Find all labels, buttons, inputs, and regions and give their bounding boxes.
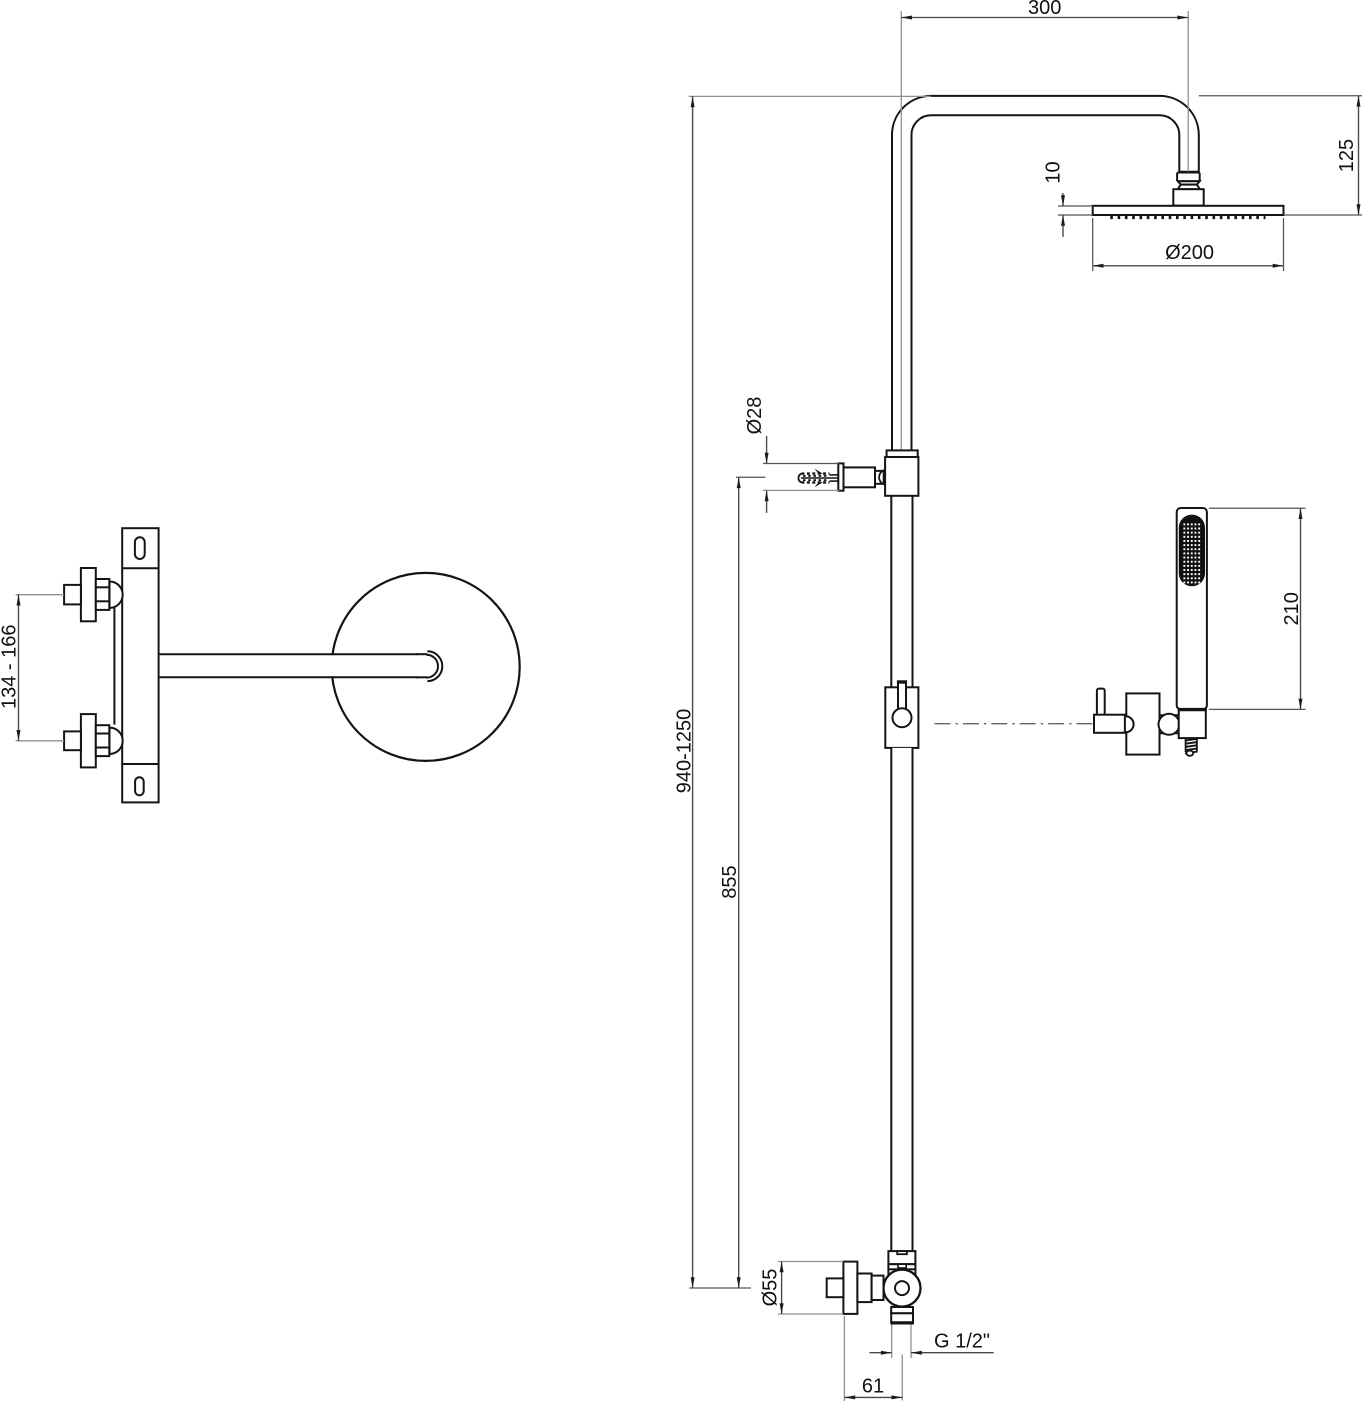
dimension Ø200 extension lines: [1093, 218, 1284, 271]
holder lever: [1097, 689, 1105, 716]
bracket neck: [875, 471, 884, 484]
shower rail tube seen from above: [140, 654, 428, 677]
svg-text:Ø200: Ø200: [1165, 242, 1214, 264]
dimension 855: [719, 477, 741, 1288]
bottom fitting hex nut: [96, 725, 110, 756]
dimension 125: [1336, 96, 1361, 215]
dimension 855 extension line: [736, 476, 765, 478]
extension line from 300 dim through riser: [900, 11, 902, 450]
hand shower hose connector: [1185, 738, 1198, 756]
mixer valve inner circle: [895, 1281, 909, 1295]
wall mounting plate (side view): [122, 528, 158, 802]
dimension 134-166: [0, 595, 21, 741]
dimension Ø28: [744, 397, 769, 513]
bracket neck-block joint arc: [879, 470, 885, 485]
top supply fitting dome union: [110, 582, 123, 608]
dimension Ø200: [1093, 242, 1284, 268]
holder joint lines: [1160, 715, 1179, 733]
bottom supply fitting dome union: [110, 728, 123, 754]
wall anchor plug: [798, 469, 838, 488]
svg-text:210: 210: [1281, 592, 1303, 625]
dimension 10 extension lines: [1058, 206, 1093, 215]
holder wall ball: [1118, 716, 1134, 732]
slider clamp tab: [897, 682, 907, 709]
dimension 61: [844, 1376, 902, 1400]
bottom fitting escutcheon: [81, 714, 96, 767]
rail holder block: [885, 457, 918, 496]
shower head disc Ø200: [1093, 206, 1284, 215]
dimension 940-1250 extension lines: [689, 96, 931, 1288]
svg-text:855: 855: [719, 865, 741, 898]
top fitting escutcheon: [81, 568, 96, 621]
holder wall plate: [1094, 715, 1125, 733]
dimension 61 extension lines: [844, 1316, 902, 1401]
slider knob: [893, 708, 912, 727]
dimension 125 extension lines: [1199, 96, 1362, 215]
dimension Ø28 extension lines: [763, 464, 839, 491]
dimension Ø55 extension lines: [778, 1262, 843, 1315]
plate slot bottom: [135, 777, 144, 795]
holder block: [1126, 693, 1159, 754]
mixer body edge lines behind plate: [114, 568, 158, 764]
mixer handle knob: [827, 1278, 844, 1297]
mixer escutcheon Ø55: [843, 1262, 857, 1314]
centerline slider to hand shower: [935, 723, 1095, 725]
svg-text:61: 61: [862, 1376, 884, 1398]
dimension 300: [901, 0, 1188, 20]
hand shower spray face: [1179, 515, 1205, 587]
shower rail lower section: [891, 748, 912, 1251]
mixer hose nut: [891, 1313, 914, 1323]
svg-text:Ø55: Ø55: [759, 1269, 781, 1307]
dimension G 1/2: [870, 1331, 994, 1355]
shower rail upper section: [891, 496, 912, 688]
dimension Ø55: [759, 1262, 783, 1315]
svg-text:134 - 166: 134 - 166: [0, 625, 20, 710]
mixer connector piece 1: [857, 1274, 871, 1303]
dimension 940-1250: [673, 96, 695, 1288]
svg-text:10: 10: [1042, 161, 1064, 183]
rail holder collar: [887, 450, 918, 457]
top fitting bolt head: [64, 585, 81, 605]
svg-text:940-1250: 940-1250: [673, 709, 695, 794]
bracket cylinder Ø28: [844, 467, 876, 487]
overhead shower head seen from above (circle Ø200): [332, 573, 520, 761]
mixer inlet side lines: [888, 1269, 915, 1275]
rail bottom lock nut: [888, 1251, 915, 1269]
svg-text:125: 125: [1336, 139, 1358, 172]
tube right end elbow ring inside circle: [413, 651, 443, 681]
mixer connector piece 2: [872, 1276, 884, 1300]
top fitting hex nut: [96, 579, 110, 610]
dimension 10: [1042, 161, 1065, 237]
shower column top arm pipe: [892, 96, 1199, 452]
hand shower slider body: [885, 687, 918, 748]
extension line from 300 dim through down tube: [1187, 11, 1189, 172]
svg-text:Ø28: Ø28: [744, 397, 766, 435]
dimension G 1/2 extension lines: [892, 1325, 911, 1359]
hand shower holder cup: [1178, 709, 1207, 738]
dimension 134-166 extension lines: [16, 595, 65, 741]
dimension 210: [1281, 508, 1303, 709]
head arm collar nut: [1177, 173, 1200, 182]
svg-text:300: 300: [1028, 0, 1061, 19]
bracket wall flange: [838, 463, 843, 490]
holder swivel ball: [1159, 714, 1180, 735]
tube left end cap ring at mixer: [127, 653, 142, 679]
plate slot top: [135, 537, 145, 559]
head swivel neck: [1178, 181, 1200, 189]
dimension 210 extension lines: [1209, 508, 1306, 709]
shower head nozzles: [1110, 216, 1265, 219]
bottom fitting bolt head: [64, 731, 81, 750]
mixer valve body circle: [884, 1270, 921, 1307]
svg-text:G 1/2": G 1/2": [934, 1331, 990, 1353]
head base cylinder: [1173, 189, 1203, 205]
hand shower wand body: [1177, 508, 1207, 709]
mixer outlet block: [891, 1307, 913, 1313]
